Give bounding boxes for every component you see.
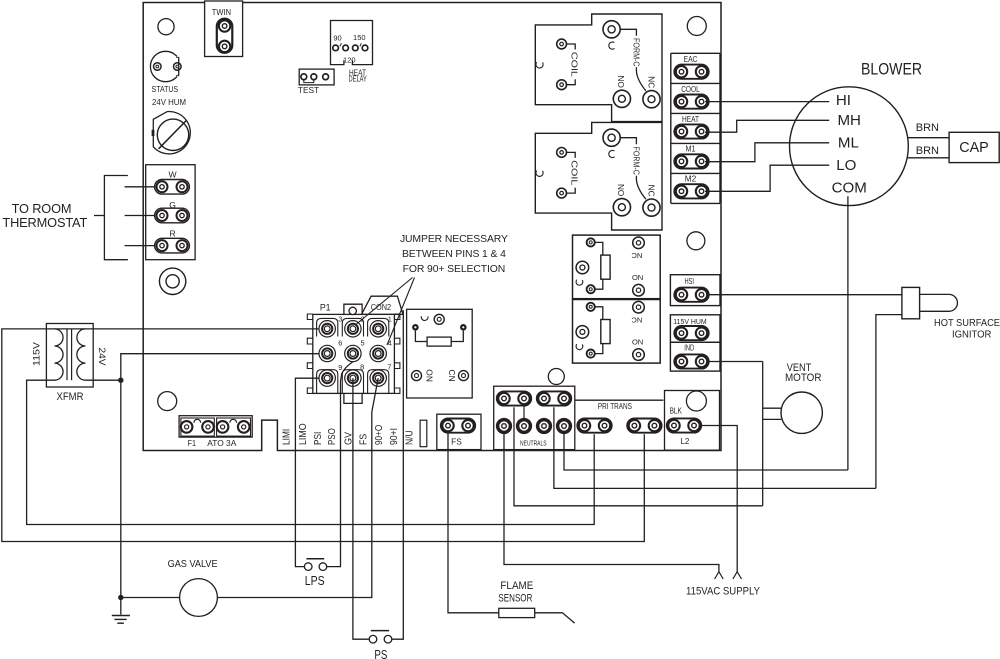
svg-text:7: 7 xyxy=(387,363,391,372)
svg-text:NC: NC xyxy=(647,185,656,197)
svg-text:6: 6 xyxy=(338,339,342,348)
svg-text:FOR 90+ SELECTION: FOR 90+ SELECTION xyxy=(403,264,506,275)
svg-text:LPS: LPS xyxy=(305,574,325,588)
svg-text:PRI TRANS: PRI TRANS xyxy=(598,402,632,411)
svg-text:ML: ML xyxy=(838,134,859,151)
svg-text:HEAT: HEAT xyxy=(682,115,699,124)
svg-text:COOL: COOL xyxy=(681,85,700,94)
svg-text:9: 9 xyxy=(338,363,342,372)
svg-text:COM: COM xyxy=(832,180,867,197)
svg-text:NC: NC xyxy=(631,315,642,324)
svg-text:NO: NO xyxy=(632,337,643,346)
svg-text:90+I: 90+I xyxy=(388,428,400,445)
svg-text:N/U: N/U xyxy=(404,430,416,445)
svg-text:SENSOR: SENSOR xyxy=(498,592,532,604)
svg-text:ON: ON xyxy=(425,369,435,382)
svg-text:TWIN: TWIN xyxy=(212,7,231,17)
svg-text:FORM-C: FORM-C xyxy=(632,38,641,67)
svg-text:HI: HI xyxy=(836,92,851,109)
svg-text:LIMO: LIMO xyxy=(297,423,309,445)
svg-text:P1: P1 xyxy=(320,303,331,313)
svg-text:ATO 3A: ATO 3A xyxy=(207,438,236,448)
svg-text:3: 3 xyxy=(338,315,342,324)
svg-text:XFMR: XFMR xyxy=(57,391,84,403)
svg-text:F1: F1 xyxy=(188,438,197,448)
svg-text:BLK: BLK xyxy=(670,407,683,416)
svg-text:M2: M2 xyxy=(685,175,697,184)
svg-text:BLOWER: BLOWER xyxy=(861,61,922,79)
svg-text:115V: 115V xyxy=(31,341,42,366)
svg-text:24V HUM: 24V HUM xyxy=(152,97,186,107)
svg-text:CAP: CAP xyxy=(959,140,989,156)
svg-text:8: 8 xyxy=(360,363,364,372)
svg-text:115V HUM: 115V HUM xyxy=(673,317,706,326)
svg-text:5: 5 xyxy=(361,338,365,347)
svg-text:BRN: BRN xyxy=(916,122,939,134)
svg-text:THERMOSTAT: THERMOSTAT xyxy=(2,215,87,230)
svg-text:LIMI: LIMI xyxy=(281,429,293,445)
svg-text:FS: FS xyxy=(357,434,369,445)
svg-text:PS: PS xyxy=(374,648,387,659)
svg-text:NO: NO xyxy=(616,184,625,196)
svg-text:MH: MH xyxy=(837,112,860,129)
svg-text:FORM-C: FORM-C xyxy=(632,146,641,175)
svg-text:FLAME: FLAME xyxy=(500,580,533,592)
svg-text:W: W xyxy=(169,170,178,180)
svg-text:150: 150 xyxy=(353,33,366,42)
svg-text:DELAY: DELAY xyxy=(349,74,368,84)
svg-text:FS: FS xyxy=(451,437,462,447)
svg-text:NO: NO xyxy=(632,273,643,282)
svg-text:TEST: TEST xyxy=(298,85,319,95)
svg-text:115VAC SUPPLY: 115VAC SUPPLY xyxy=(686,586,760,598)
svg-text:90+O: 90+O xyxy=(373,425,385,445)
svg-text:LO: LO xyxy=(836,157,856,174)
svg-text:STATUS: STATUS xyxy=(152,84,179,94)
svg-text:IND: IND xyxy=(684,343,694,352)
svg-text:BRN: BRN xyxy=(916,145,939,157)
svg-text:1: 1 xyxy=(388,314,392,323)
svg-text:CN: CN xyxy=(447,370,457,382)
svg-text:COIL: COIL xyxy=(570,52,579,78)
svg-text:JUMPER NECESSARY: JUMPER NECESSARY xyxy=(400,234,508,245)
svg-text:M1: M1 xyxy=(686,145,696,154)
svg-text:MOTOR: MOTOR xyxy=(785,372,822,384)
svg-text:HSI: HSI xyxy=(684,277,694,286)
svg-text:NC: NC xyxy=(647,76,656,88)
svg-text:COIL: COIL xyxy=(570,160,579,186)
svg-text:HOT SURFACE: HOT SURFACE xyxy=(934,318,1000,329)
svg-text:R: R xyxy=(169,228,175,238)
svg-text:IGNITOR: IGNITOR xyxy=(952,330,992,341)
svg-text:PSI: PSI xyxy=(312,432,324,445)
svg-text:NEUTRALS: NEUTRALS xyxy=(520,439,547,448)
svg-text:24V: 24V xyxy=(96,348,107,367)
svg-text:90: 90 xyxy=(333,33,341,42)
svg-text:GAS VALVE: GAS VALVE xyxy=(168,559,218,570)
svg-text:NO: NO xyxy=(616,76,625,88)
svg-text:L2: L2 xyxy=(680,436,689,446)
svg-text:PSO: PSO xyxy=(326,428,338,445)
svg-text:EAC: EAC xyxy=(684,55,698,64)
svg-text:120: 120 xyxy=(343,56,356,65)
svg-text:TO ROOM: TO ROOM xyxy=(12,201,72,216)
svg-text:NC: NC xyxy=(631,251,642,260)
svg-text:BETWEEN PINS 1 & 4: BETWEEN PINS 1 & 4 xyxy=(402,249,506,260)
